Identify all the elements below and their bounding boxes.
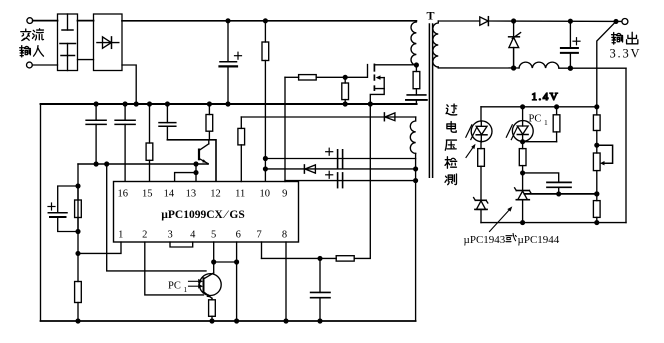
wire left column x78 bbox=[77, 164, 79, 253]
capacitor C6 electrolytic bbox=[338, 150, 343, 169]
transformer T1 core bbox=[429, 24, 432, 177]
node x78 cap top bbox=[76, 184, 80, 188]
wire aux diode line y117 bbox=[241, 116, 415, 118]
label C7 polarity + bbox=[326, 171, 333, 178]
node R1 top bbox=[264, 19, 268, 23]
transistor Q2 MOSFET bbox=[370, 64, 416, 104]
resistor R1 startup bbox=[262, 21, 269, 182]
capacitor C10 output electrolytic bbox=[561, 21, 578, 68]
resistor R8 gate pulldown bbox=[342, 77, 349, 104]
svg-text:1: 1 bbox=[544, 118, 548, 127]
svg-text:3.3V: 3.3V bbox=[610, 47, 642, 61]
diode D5 catch bbox=[509, 21, 521, 68]
wire after inductor bbox=[559, 67, 626, 69]
wire aux return bbox=[415, 153, 417, 321]
capacitor C7 electrolytic bbox=[338, 173, 343, 188]
wire 3.3V top rail bbox=[488, 20, 621, 22]
node mid rail PC branch bbox=[105, 162, 109, 166]
node R1 line169 bbox=[264, 167, 268, 171]
wire pin1 bbox=[78, 242, 121, 253]
LED D6 overvoltage bbox=[471, 107, 492, 142]
svg-text:1: 1 bbox=[184, 285, 188, 294]
svg-text:11: 11 bbox=[235, 188, 245, 199]
node ref cap bbox=[557, 192, 561, 196]
wire DC+ top rail to transformer bbox=[122, 20, 416, 22]
resistor R11 snubber bbox=[413, 72, 420, 89]
node sense cap bbox=[318, 257, 322, 261]
wire secondary bottom bbox=[437, 66, 439, 69]
wire DC- bus bbox=[41, 103, 417, 105]
node C2 top bbox=[94, 102, 98, 106]
node rail PC1 led bbox=[521, 105, 525, 109]
wire pin8 bbox=[285, 242, 287, 321]
node R2 top bbox=[148, 102, 152, 106]
wire output diagonal feed bbox=[597, 21, 616, 106]
wire pin2 to PC1 emitter bbox=[145, 242, 204, 295]
node aux line180 bbox=[414, 179, 418, 183]
optocoupler phototransistor PC1 bbox=[199, 262, 221, 298]
resistor R10 to pin11 bbox=[238, 117, 245, 182]
IC U1 uPC1099 bbox=[114, 182, 299, 243]
node link B bbox=[235, 260, 239, 264]
node bridge to bus bbox=[134, 102, 138, 106]
wire current sense drop bbox=[354, 104, 370, 258]
wire filter to rectifier bottom bbox=[78, 59, 94, 61]
wire PC1 collector feed bbox=[107, 164, 206, 271]
LED D8 optocoupler PC1 bbox=[512, 107, 533, 142]
light slashes LED1 bbox=[466, 125, 477, 140]
svg-text:µPC1099CX ∕ GS: µPC1099CX ∕ GS bbox=[161, 209, 244, 221]
svg-text:7: 7 bbox=[256, 230, 261, 241]
wire left edge vertical bbox=[40, 104, 42, 321]
node rail R13 bbox=[555, 105, 559, 109]
node output cap top bbox=[569, 19, 573, 23]
capacitor C1 bulk electrolytic bbox=[220, 21, 238, 104]
capacitor C8 bbox=[311, 258, 330, 321]
node mid rail C2 bbox=[94, 162, 98, 166]
wire to pin 14 bbox=[175, 173, 196, 182]
wire to ref cap bbox=[523, 173, 559, 182]
wire line y158 to aux bbox=[265, 158, 415, 160]
wire detect block bottom rail bbox=[481, 222, 626, 224]
resistor R5 bbox=[75, 253, 82, 321]
inductor L1 bbox=[519, 62, 559, 68]
node output branch bbox=[614, 20, 618, 24]
resistor R9 sense bbox=[262, 256, 355, 261]
light slashes LED2 bbox=[506, 125, 517, 140]
resistor R6 PC1 emitter bbox=[209, 298, 216, 321]
capacitor C9 snubber bbox=[406, 89, 427, 104]
node led branch bbox=[521, 171, 525, 175]
wire mid rail node bbox=[78, 163, 208, 165]
wire pin5 to pin6 link bbox=[214, 261, 237, 263]
node rail right bbox=[595, 105, 599, 109]
capacitor C5 electrolytic bbox=[48, 186, 78, 232]
wire C4 R3 to IC pin12 bbox=[167, 140, 216, 182]
wire line y169 to aux bbox=[265, 168, 415, 170]
node R6 rail bbox=[210, 319, 214, 323]
resistor R7 gate series bbox=[285, 75, 345, 80]
wire rectifier bottom to DC- bus bbox=[122, 65, 136, 104]
label output 输出 3.3V bbox=[610, 32, 642, 60]
potentiometer VR1 bbox=[593, 145, 612, 194]
wire 1.4V rail bbox=[481, 106, 597, 108]
node bottom rail U2 bbox=[521, 221, 525, 225]
svg-text:5: 5 bbox=[211, 230, 216, 241]
node pin6 rail bbox=[235, 319, 239, 323]
wire AC top terminal to filter box bbox=[33, 20, 58, 22]
shunt regulator U2 uPC1943 bbox=[515, 173, 531, 223]
wire primary bottom snubber bbox=[415, 65, 417, 72]
node C4 top bbox=[166, 102, 170, 106]
wire stub pin13 bbox=[195, 164, 197, 173]
node bottom rail R15 bbox=[595, 221, 599, 225]
transformer auxiliary winding bbox=[410, 117, 415, 153]
wire secondary top bbox=[438, 20, 480, 22]
transformer secondary winding bbox=[433, 21, 438, 67]
terminal AC input bottom bbox=[27, 62, 33, 68]
wire AC bottom terminal to filter box bbox=[32, 64, 57, 66]
node primary bottom bbox=[415, 63, 419, 67]
svg-text:µPC1944: µPC1944 bbox=[518, 234, 560, 246]
node LED2 cathode junction bbox=[521, 140, 525, 144]
transistor Q1 bbox=[199, 140, 209, 164]
svg-text:3: 3 bbox=[167, 230, 172, 241]
wire gate lead bbox=[345, 65, 367, 78]
resistor R15 lower divider bbox=[593, 194, 600, 223]
node stub lower bbox=[194, 171, 198, 175]
capacitor C11 bbox=[547, 182, 571, 194]
node R8 bus bbox=[343, 102, 347, 106]
node C8 rail bbox=[318, 319, 322, 323]
svg-text:PC: PC bbox=[168, 281, 181, 292]
svg-text:9: 9 bbox=[282, 188, 287, 199]
node R5 bottom rail bbox=[76, 319, 80, 323]
node R1 line158 bbox=[264, 157, 268, 161]
wire pin5 bbox=[213, 242, 215, 262]
diode inside rectifier box bbox=[97, 37, 119, 48]
node output cap bottom bbox=[568, 66, 572, 70]
diode D2 bbox=[304, 165, 315, 173]
svg-text:14: 14 bbox=[164, 188, 175, 199]
svg-text:1: 1 bbox=[118, 230, 123, 241]
wire reference line bbox=[525, 193, 597, 195]
resistor R12 bbox=[478, 141, 485, 200]
svg-text:8: 8 bbox=[282, 230, 287, 241]
node x78 cap bottom bbox=[76, 230, 80, 234]
label C6 polarity + bbox=[326, 148, 333, 155]
diode D4 output rectifier bbox=[480, 17, 489, 26]
wire bottom rail bbox=[41, 320, 416, 322]
light arrows into PC1 bbox=[189, 279, 204, 289]
EMI filter box FL1 bbox=[58, 14, 78, 71]
node aux line169 bbox=[414, 167, 418, 171]
wire right edge drop bbox=[625, 68, 627, 222]
label C5 polarity + bbox=[48, 203, 55, 210]
wire pin7 bbox=[261, 242, 263, 258]
label PC1 secondary bbox=[529, 114, 549, 128]
wire filter to rectifier top bbox=[78, 20, 94, 22]
diode D3 bbox=[384, 113, 395, 121]
svg-text:2: 2 bbox=[142, 230, 147, 241]
svg-text:6: 6 bbox=[236, 230, 241, 241]
svg-text:µPC1943: µPC1943 bbox=[464, 234, 506, 246]
node MOSFET source bus bbox=[368, 102, 372, 106]
node link A bbox=[212, 260, 216, 264]
transformer primary winding bbox=[411, 21, 416, 65]
node catch diode top bbox=[512, 19, 516, 23]
resistor R2 to pin15 bbox=[146, 104, 153, 182]
resistor R3 bbox=[206, 104, 213, 140]
label uPC1943 or uPC1944 bbox=[464, 233, 560, 246]
resistor R16 parallel LED bbox=[553, 107, 560, 142]
capacitor C2 bbox=[86, 104, 106, 164]
node gate divider bbox=[343, 75, 347, 79]
node R3 top bbox=[208, 102, 212, 106]
node ref right bbox=[595, 192, 599, 196]
node C3 top bbox=[123, 102, 127, 106]
node pot top bbox=[595, 143, 599, 147]
label AC input 交流输入 bbox=[20, 29, 44, 57]
wire R16 to LED2 cathode bbox=[523, 141, 557, 143]
terminal AC input top bbox=[27, 18, 33, 24]
svg-text:15: 15 bbox=[142, 188, 153, 199]
label C1 polarity + bbox=[235, 52, 242, 59]
leader arrow to U2 bbox=[490, 206, 513, 231]
svg-text:16: 16 bbox=[117, 188, 128, 199]
resistor R4 bbox=[75, 186, 82, 232]
svg-text:12: 12 bbox=[210, 188, 221, 199]
wire pin9 riser bbox=[284, 77, 286, 181]
leader arrow to LED1 bbox=[466, 144, 476, 158]
svg-text:4: 4 bbox=[190, 230, 196, 241]
wire to pin 13 bbox=[195, 173, 197, 182]
resistor R13 led series bbox=[519, 142, 526, 173]
label C10 polarity + bbox=[573, 38, 580, 45]
capacitor inside filter box bbox=[60, 14, 76, 71]
svg-text:13: 13 bbox=[186, 188, 197, 199]
resistor R14 upper divider bbox=[593, 107, 600, 145]
svg-text:10: 10 bbox=[260, 188, 271, 199]
node C1 bottom bbox=[226, 102, 230, 106]
bridge rectifier box BR1 bbox=[94, 14, 123, 71]
capacitor C4 bbox=[159, 104, 176, 140]
label overvoltage detect 过电压检测 bbox=[445, 104, 457, 185]
terminal output bbox=[622, 19, 628, 25]
node x78 pin1 bbox=[76, 252, 80, 256]
node pin8 rail bbox=[284, 319, 288, 323]
node C1 top bbox=[226, 19, 230, 23]
svg-text:1.4V: 1.4V bbox=[532, 91, 560, 103]
svg-text:PC: PC bbox=[529, 114, 542, 125]
wire pins 3-4 strap bbox=[170, 242, 193, 247]
wire line y180.6 bbox=[285, 180, 416, 182]
svg-text:T: T bbox=[427, 9, 435, 23]
capacitor C3 bbox=[115, 104, 135, 182]
node mid rail stub bbox=[194, 162, 198, 166]
label PC1 bbox=[168, 281, 188, 295]
node catch diode bottom bbox=[512, 66, 516, 70]
zener D7 bbox=[474, 198, 488, 223]
wire pin6 bbox=[236, 242, 238, 321]
